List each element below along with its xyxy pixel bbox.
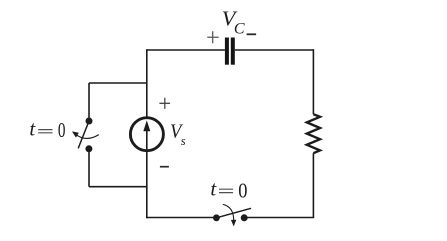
switch S1 motion arc [76,134,99,138]
switch S2 right terminal dot [241,214,248,221]
voltage source Vs arrowhead [143,120,150,131]
voltage source Vs arrow shaft [146,129,148,149]
wire branch bottom (corner to node A3) [89,186,148,188]
wire left lower (source bottom to bottom-left corner) [146,150,148,218]
switch S1 bottom terminal dot [85,145,92,152]
source polarity minus sign [160,166,169,168]
wire branch left lower (switch S1 bottom terminal down to corner) [88,149,90,187]
svg-text:0: 0 [238,179,247,203]
wire top-left (node A to capacitor) [147,49,225,51]
label t=0 for S1 : equals sign [38,130,52,133]
capacitor C1 left plate [225,38,229,65]
switch S1 blade [78,121,89,148]
wire bottom-right (corner to switch S2 right terminal) [244,217,314,219]
svg-text:t: t [210,177,217,201]
switch S2 motion arc [223,204,234,220]
switch S1 motion arrowhead [72,131,79,137]
svg-text:C: C [234,21,245,38]
source polarity plus sign [159,98,170,109]
svg-text:s: s [181,134,186,148]
voltage source Vs circle [130,118,163,151]
wire right lower (resistor to bottom-right corner) [312,153,314,217]
wire left upper (node A down to source top) [146,49,148,118]
capacitor polarity minus sign [247,33,257,35]
wire bottom-left (switch S2 left terminal to bottom-left corner) [147,217,218,219]
svg-text:0: 0 [58,119,66,142]
switch S2 blade [216,208,251,218]
wire right upper (node B down to resistor) [312,49,314,114]
wire branch left upper (corner down to switch S1 top terminal) [88,83,90,121]
capacitor polarity plus sign [207,31,218,43]
capacitor C1 right plate [231,38,235,65]
wire branch top (node A2 to switch branch top-left corner) [89,82,148,84]
label t=0 for S2 : equals sign [219,189,233,192]
switch S2 motion arrowhead [231,220,236,227]
switch S2 left terminal dot [213,214,220,221]
svg-text:t: t [29,116,36,140]
wire top-right (capacitor to node B) [235,49,314,51]
resistor R1 (right branch zigzag) [307,114,320,153]
switch S1 top terminal dot [86,118,93,125]
